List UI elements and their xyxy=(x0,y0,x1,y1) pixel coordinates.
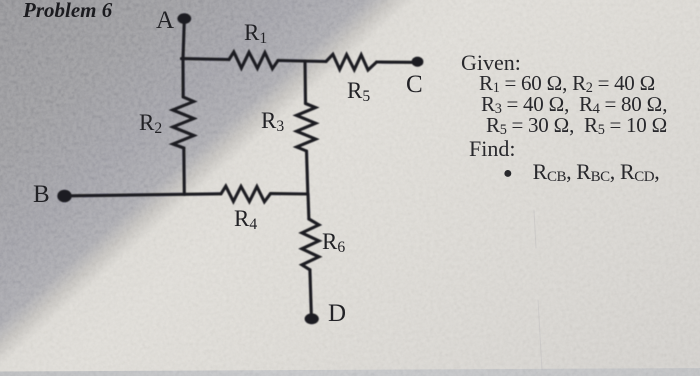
resistor R2 xyxy=(173,97,194,148)
wire R4 to bottom junction xyxy=(271,192,309,195)
node label B xyxy=(33,181,50,209)
resistor R6 xyxy=(302,219,319,270)
node B xyxy=(57,190,71,203)
label R3 xyxy=(261,108,284,134)
label R2 xyxy=(139,110,162,136)
title Problem 6 xyxy=(23,0,112,23)
bullet item xyxy=(503,159,659,185)
resistor R4 xyxy=(221,186,271,202)
paper bottom edge / table strip xyxy=(0,366,700,376)
wire top rail left stub to R1 xyxy=(182,57,230,61)
node label A xyxy=(156,7,174,35)
wire A down to top rail xyxy=(183,20,184,59)
wire R3 to bottom rail xyxy=(307,151,308,193)
node label C xyxy=(406,71,423,99)
resistor R5 xyxy=(326,54,377,70)
wire R6 to node D xyxy=(310,270,311,314)
wire A rail down to R2 xyxy=(181,59,184,97)
wire R5 to node C xyxy=(377,60,412,63)
wire bottom junction down to R6 xyxy=(306,194,310,219)
label R1 xyxy=(244,20,267,46)
wire R1 to R5 (through node above R3) xyxy=(278,61,326,62)
label R6 xyxy=(322,229,345,255)
wire R2 to bottom rail xyxy=(182,148,186,195)
faint paper crease right side xyxy=(534,210,536,248)
resistor R3 xyxy=(297,104,316,152)
wire B to R4 xyxy=(71,194,221,196)
resistor R1 xyxy=(229,52,278,69)
node D xyxy=(305,313,319,324)
label R4 xyxy=(234,206,257,232)
wire junction down to R3 xyxy=(303,61,307,104)
node C xyxy=(412,57,424,67)
given/find text block xyxy=(461,50,521,76)
label R5 xyxy=(347,78,370,104)
node label D xyxy=(328,300,346,328)
node A xyxy=(177,13,191,24)
